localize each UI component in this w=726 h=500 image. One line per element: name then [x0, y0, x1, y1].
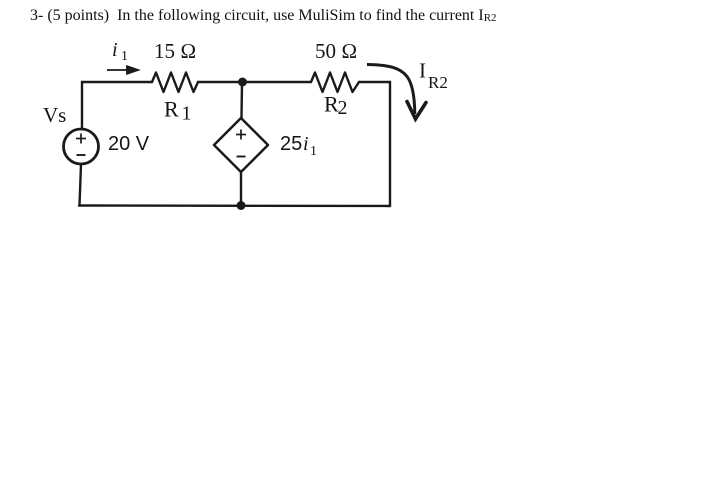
- dependent source plus sign: [236, 130, 246, 140]
- wire top right horizontal: [359, 81, 390, 83]
- svg-text:1: 1: [182, 103, 192, 125]
- svg-text:2: 2: [338, 97, 348, 119]
- wire top middle: [198, 81, 311, 83]
- wire right vertical: [389, 82, 391, 206]
- svg-text:R: R: [164, 97, 179, 122]
- svg-text:i: i: [303, 133, 309, 155]
- current arrow i1: [107, 66, 138, 74]
- voltage source minus sign: [77, 154, 86, 156]
- wire bottom horizontal: [79, 204, 390, 207]
- resistor R1: [152, 73, 198, 93]
- svg-text:1: 1: [310, 144, 317, 159]
- svg-text:20 V: 20 V: [108, 133, 150, 155]
- wire top-left horizontal: [82, 81, 152, 83]
- wire node branch upper: [240, 82, 243, 118]
- svg-text:i: i: [112, 39, 118, 61]
- svg-text:Vs: Vs: [43, 103, 66, 127]
- node B bottom junction dot: [237, 201, 246, 210]
- dependent source minus sign: [237, 156, 246, 158]
- svg-text:15 Ω: 15 Ω: [154, 39, 196, 63]
- svg-text:1: 1: [121, 49, 128, 64]
- voltage source plus sign: [76, 134, 86, 144]
- svg-text:25: 25: [280, 133, 302, 155]
- svg-text:I: I: [419, 59, 426, 83]
- wire left vertical lower: [80, 164, 82, 206]
- wire left vertical upper: [81, 82, 83, 129]
- current arrow IR2 curved: [367, 65, 415, 115]
- resistor R2: [311, 73, 359, 93]
- problem statement text: [30, 7, 497, 25]
- node A top junction dot: [238, 78, 247, 87]
- dependent source 25i1 diamond: [214, 118, 268, 172]
- svg-text:R2: R2: [428, 73, 448, 92]
- voltage source Vs circle: [64, 129, 99, 164]
- svg-text:50 Ω: 50 Ω: [315, 39, 357, 63]
- arrowhead IR2: [407, 102, 426, 120]
- wire node branch lower: [240, 172, 242, 206]
